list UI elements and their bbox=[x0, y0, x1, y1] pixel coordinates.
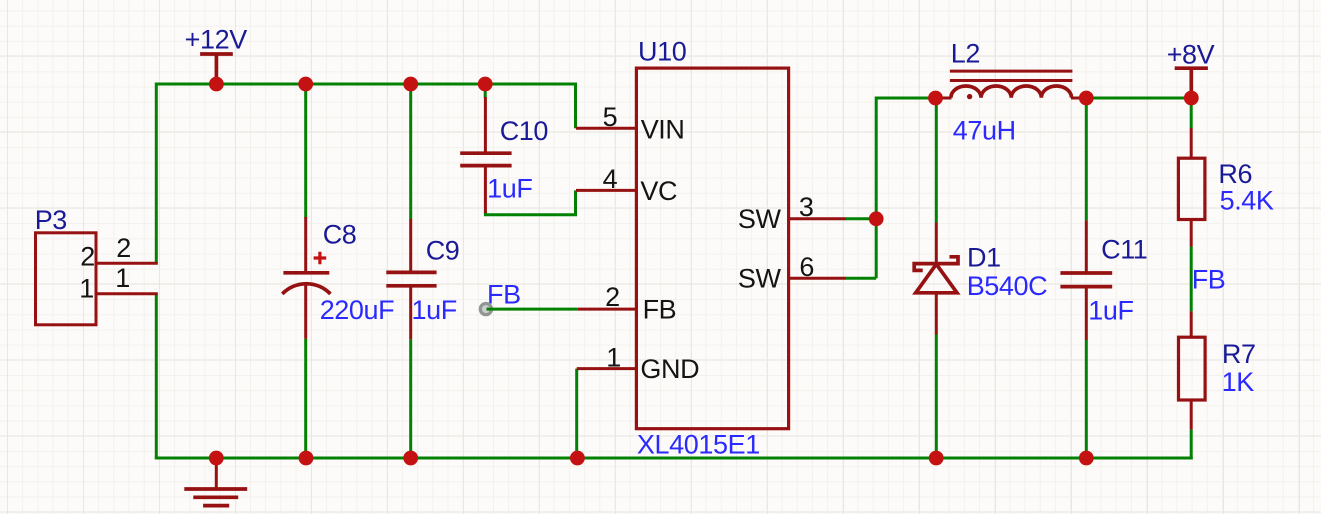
svg-text:+8V: +8V bbox=[1167, 40, 1215, 70]
svg-text:L2: L2 bbox=[951, 39, 980, 69]
svg-text:FB: FB bbox=[643, 294, 677, 324]
U10 pin 6 SW bbox=[738, 252, 846, 294]
wire VIN drop bbox=[574, 84, 577, 128]
U10 pin 5 VIN bbox=[576, 102, 685, 145]
ground bbox=[184, 458, 247, 506]
svg-text:1uF: 1uF bbox=[487, 174, 532, 204]
svg-text:2: 2 bbox=[605, 282, 620, 312]
wire C11 bottom bbox=[1085, 340, 1088, 458]
svg-text:C10: C10 bbox=[500, 116, 548, 146]
svg-text:R6: R6 bbox=[1218, 159, 1252, 189]
U10 pin 4 VC bbox=[576, 164, 677, 206]
svg-text:1: 1 bbox=[79, 273, 94, 303]
wire D1 bottom bbox=[935, 335, 938, 459]
svg-text:GND: GND bbox=[640, 354, 699, 384]
P3 pin 1 bbox=[79, 263, 158, 303]
wire C10 bottom to VC pin bbox=[485, 190, 575, 214]
wire SW vertical to L2 bbox=[876, 98, 937, 278]
svg-text:220uF: 220uF bbox=[320, 295, 395, 325]
svg-text:4: 4 bbox=[603, 164, 618, 194]
svg-text:B540C: B540C bbox=[967, 271, 1048, 301]
resistor R7 bbox=[1179, 311, 1256, 429]
wire C9 top bbox=[409, 84, 412, 219]
svg-text:5: 5 bbox=[603, 102, 618, 132]
capacitor C9 bbox=[386, 219, 459, 339]
svg-text:FB: FB bbox=[487, 279, 521, 309]
wire bottom ground rail bbox=[155, 457, 1193, 460]
svg-text:XL4015E1: XL4015E1 bbox=[637, 430, 760, 460]
svg-text:1K: 1K bbox=[1222, 367, 1255, 397]
net label FB left bbox=[487, 279, 521, 309]
svg-text:SW: SW bbox=[738, 264, 782, 294]
wire C10 top bbox=[484, 84, 487, 98]
wire C8 top bbox=[304, 84, 307, 218]
wire R7 bottom bbox=[1190, 430, 1193, 460]
svg-text:SW: SW bbox=[738, 204, 782, 234]
svg-text:P3: P3 bbox=[35, 205, 67, 235]
svg-text:47uH: 47uH bbox=[953, 115, 1016, 145]
svg-text:6: 6 bbox=[799, 252, 814, 282]
svg-text:C11: C11 bbox=[1101, 234, 1147, 264]
junction dot SW node bbox=[869, 211, 884, 226]
capacitor C8 bbox=[282, 217, 394, 339]
IC U10 XL4015E1 bbox=[636, 37, 788, 460]
power +12V bbox=[185, 24, 248, 84]
wire C9 bottom bbox=[409, 339, 412, 458]
svg-text:U10: U10 bbox=[638, 37, 686, 67]
inductor L2 bbox=[936, 39, 1086, 146]
capacitor C10 bbox=[460, 97, 548, 213]
wire SW pin 6 bbox=[845, 277, 876, 280]
wire C11 top bbox=[1085, 98, 1088, 220]
junction dots bottom rail bbox=[209, 451, 224, 466]
net label FB right bbox=[1192, 264, 1226, 294]
svg-text:2: 2 bbox=[80, 242, 95, 272]
svg-text:C9: C9 bbox=[426, 236, 460, 266]
svg-text:C8: C8 bbox=[323, 220, 357, 250]
svg-text:1uF: 1uF bbox=[412, 295, 457, 325]
wire C8 bottom bbox=[304, 339, 307, 458]
no-ERC gray dot bbox=[480, 304, 493, 315]
wire R6 to R7 FB net bbox=[1190, 247, 1193, 312]
svg-text:2: 2 bbox=[116, 233, 131, 263]
U10 pin 1 GND bbox=[577, 342, 700, 384]
svg-text:D1: D1 bbox=[967, 243, 1001, 273]
wire top rail +12V net bbox=[156, 84, 577, 263]
U10 pin 2 FB bbox=[578, 282, 677, 324]
resistor R6 bbox=[1178, 128, 1274, 247]
svg-text:1: 1 bbox=[606, 342, 621, 372]
junction dots top rail bbox=[209, 77, 224, 92]
diode D1 B540C schottky bbox=[914, 223, 1047, 335]
svg-text:+12V: +12V bbox=[185, 24, 248, 54]
wire D1 top bbox=[935, 98, 938, 223]
svg-text:3: 3 bbox=[799, 192, 814, 222]
svg-text:1uF: 1uF bbox=[1088, 295, 1133, 325]
svg-text:VIN: VIN bbox=[641, 114, 685, 144]
wire SW pin 3 bbox=[845, 217, 876, 220]
connector P3 bbox=[35, 205, 96, 325]
wire L2 to +8V corner bbox=[1085, 97, 1191, 100]
P3 pin 2 bbox=[80, 233, 158, 272]
wire FB to pin 2 bbox=[486, 308, 578, 311]
svg-text:VC: VC bbox=[640, 176, 677, 206]
wire left vertical lower bbox=[155, 294, 158, 458]
junction dots +8V rail bbox=[928, 91, 943, 106]
power +8V bbox=[1167, 40, 1215, 99]
svg-text:5.4K: 5.4K bbox=[1220, 186, 1274, 216]
wire R6 top bbox=[1190, 98, 1193, 128]
U10 pin 3 SW bbox=[738, 192, 846, 234]
capacitor C11 bbox=[1060, 220, 1147, 340]
wire GND pin to rail bbox=[575, 369, 578, 458]
svg-text:FB: FB bbox=[1192, 264, 1226, 294]
svg-text:R7: R7 bbox=[1222, 339, 1256, 369]
svg-text:1: 1 bbox=[115, 263, 130, 293]
